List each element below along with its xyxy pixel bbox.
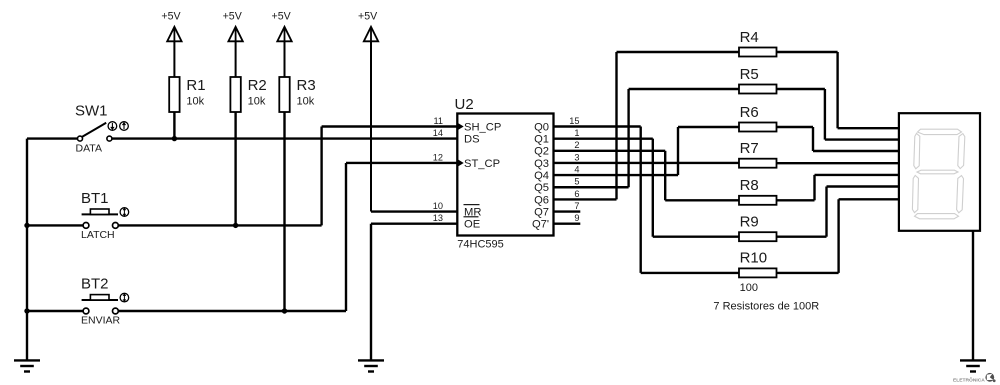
svg-text:ST_CP: ST_CP bbox=[464, 158, 500, 170]
svg-text:DS: DS bbox=[464, 134, 480, 146]
svg-text:SH_CP: SH_CP bbox=[464, 121, 501, 133]
svg-text:Q2: Q2 bbox=[534, 146, 549, 158]
svg-text:4: 4 bbox=[574, 165, 579, 175]
svg-text:15: 15 bbox=[569, 116, 579, 126]
svg-text:Q7: Q7 bbox=[534, 206, 549, 218]
svg-text:11: 11 bbox=[433, 116, 443, 126]
svg-text:74HC595: 74HC595 bbox=[457, 239, 503, 251]
svg-text:OE: OE bbox=[464, 219, 480, 231]
svg-text:14: 14 bbox=[433, 128, 443, 138]
svg-text:9: 9 bbox=[574, 213, 579, 223]
svg-text:+5V: +5V bbox=[223, 11, 243, 23]
svg-text:6: 6 bbox=[574, 189, 579, 199]
svg-text:7: 7 bbox=[574, 201, 579, 211]
svg-text:Q4: Q4 bbox=[534, 170, 549, 182]
svg-text:10k: 10k bbox=[248, 95, 266, 107]
svg-text:Q0: Q0 bbox=[534, 121, 549, 133]
svg-text:DATA: DATA bbox=[76, 142, 102, 154]
svg-text:+5V: +5V bbox=[161, 11, 181, 23]
svg-text:2: 2 bbox=[574, 140, 579, 150]
svg-text:ENVIAR: ENVIAR bbox=[81, 315, 121, 327]
svg-text:Q1: Q1 bbox=[534, 134, 549, 146]
svg-text:+5V: +5V bbox=[272, 11, 292, 23]
svg-text:3: 3 bbox=[574, 152, 579, 162]
svg-text:R2: R2 bbox=[248, 77, 267, 94]
svg-text:5: 5 bbox=[574, 177, 579, 187]
svg-text:U2: U2 bbox=[455, 96, 474, 113]
svg-text:R5: R5 bbox=[740, 66, 759, 83]
svg-text:100: 100 bbox=[740, 282, 758, 294]
svg-text:BT1: BT1 bbox=[81, 190, 109, 207]
svg-text:Q3: Q3 bbox=[534, 158, 549, 170]
svg-text:R4: R4 bbox=[740, 29, 759, 46]
svg-text:Q7': Q7' bbox=[532, 219, 549, 231]
svg-text:1: 1 bbox=[574, 128, 579, 138]
svg-text:R10: R10 bbox=[740, 250, 768, 267]
svg-text:R9: R9 bbox=[740, 214, 759, 231]
svg-text:10k: 10k bbox=[297, 95, 315, 107]
svg-text:13: 13 bbox=[433, 213, 443, 223]
svg-text:10: 10 bbox=[433, 201, 443, 211]
svg-text:Q5: Q5 bbox=[534, 182, 549, 194]
svg-text:R3: R3 bbox=[297, 77, 316, 94]
svg-text:R6: R6 bbox=[740, 104, 759, 121]
svg-text:Q6: Q6 bbox=[534, 194, 549, 206]
svg-text:SW1: SW1 bbox=[75, 103, 108, 120]
svg-text:12: 12 bbox=[433, 152, 443, 162]
svg-text:R1: R1 bbox=[186, 77, 205, 94]
svg-text:R7: R7 bbox=[740, 140, 759, 157]
svg-text:+5V: +5V bbox=[358, 11, 378, 23]
svg-text:LATCH: LATCH bbox=[81, 229, 115, 241]
svg-text:R8: R8 bbox=[740, 177, 759, 194]
svg-text:BT2: BT2 bbox=[81, 276, 109, 293]
svg-text:10k: 10k bbox=[186, 95, 204, 107]
svg-text:7 Resistores de 100R: 7 Resistores de 100R bbox=[713, 301, 819, 313]
